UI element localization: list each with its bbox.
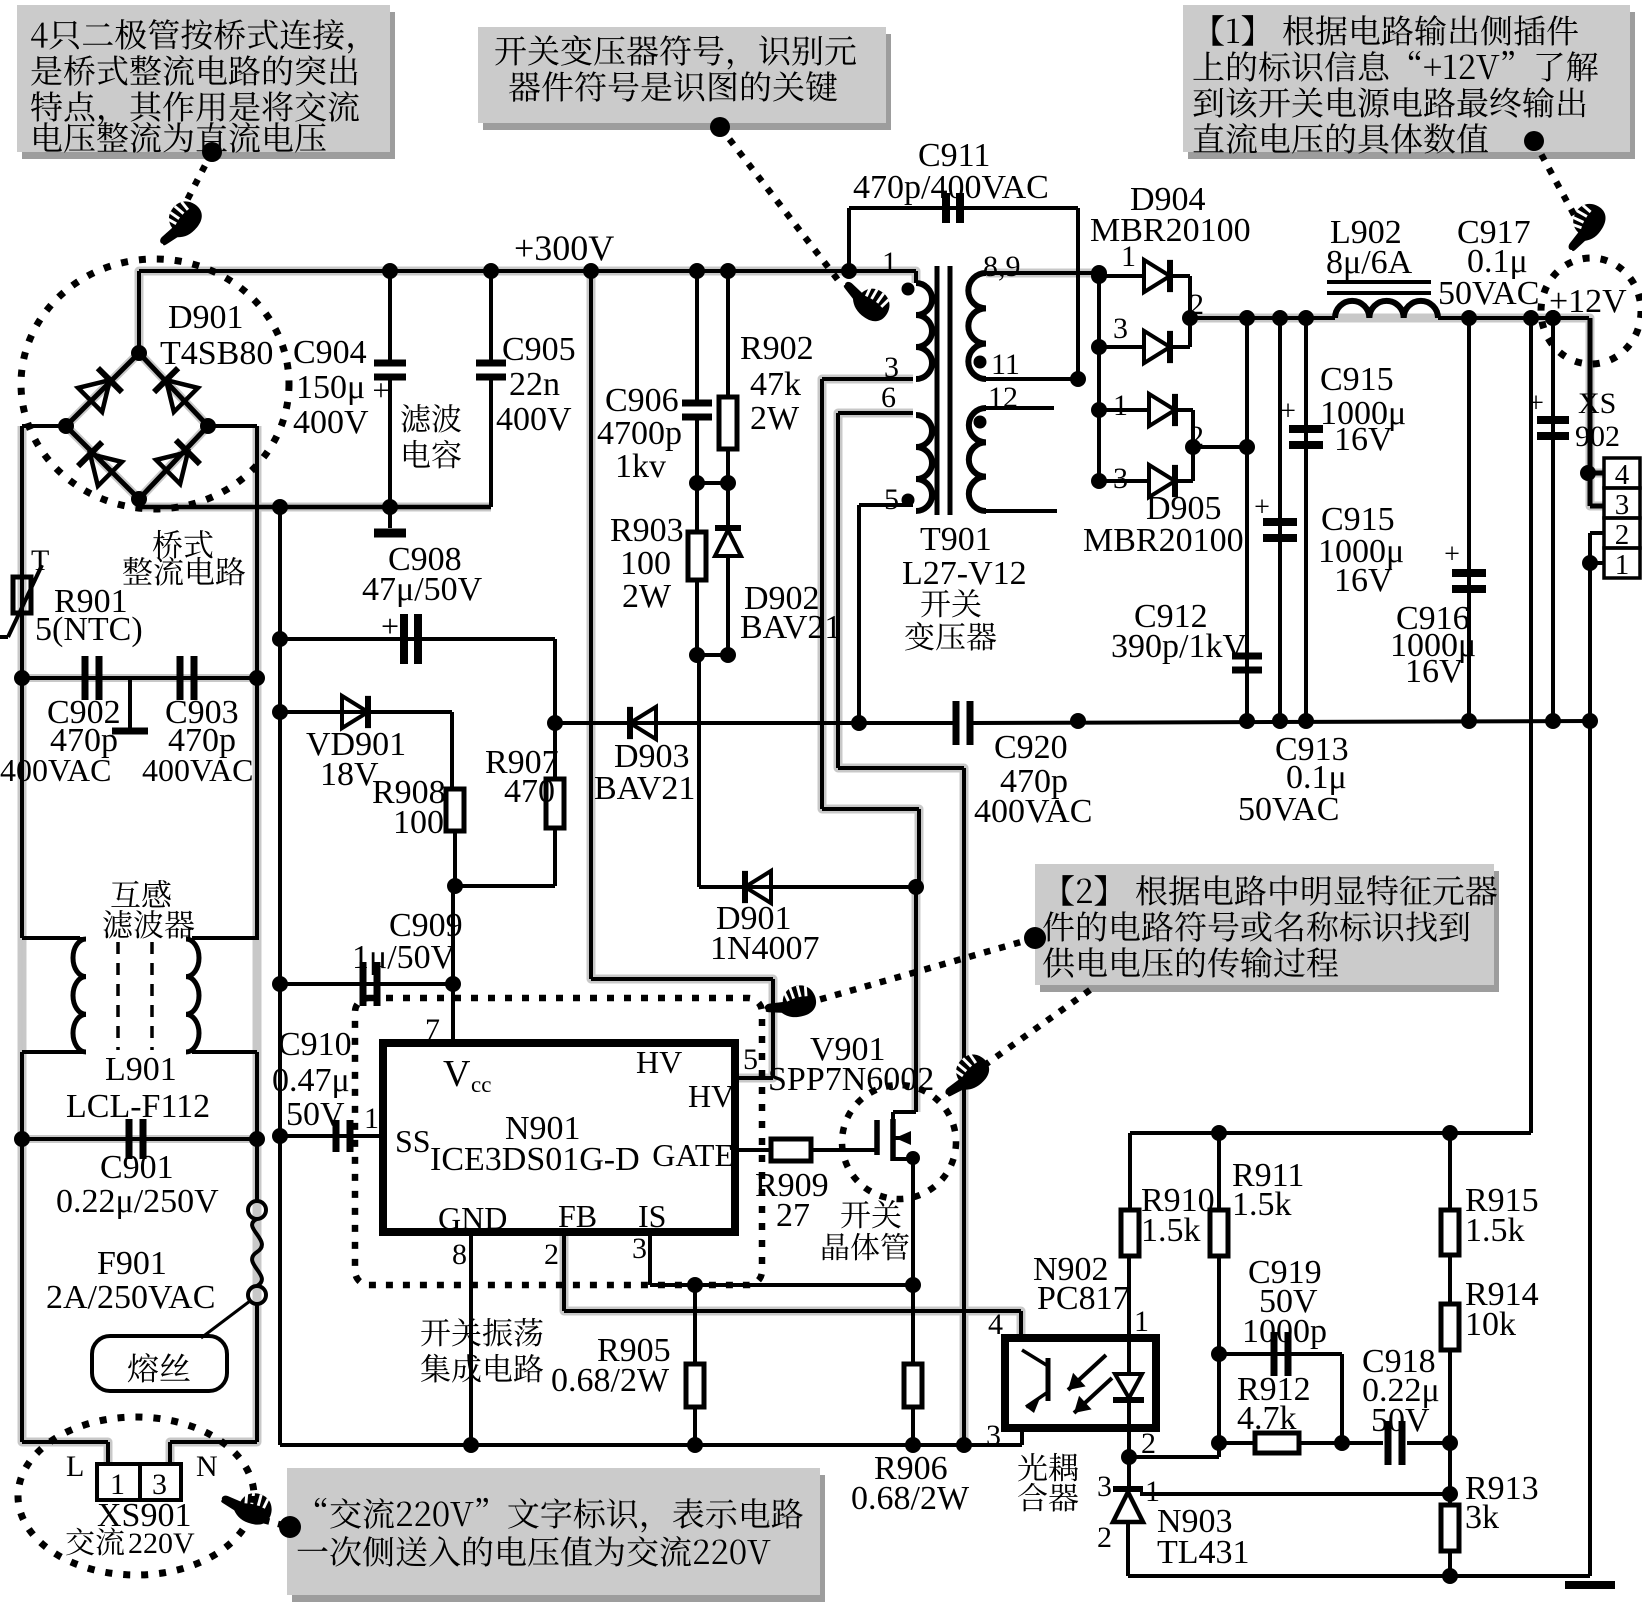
svg-text:SPP7N6002: SPP7N6002: [768, 1061, 934, 1098]
svg-text:IS: IS: [638, 1198, 666, 1234]
svg-text:50VAC: 50VAC: [1438, 275, 1539, 312]
svg-text:3: 3: [884, 351, 899, 384]
svg-text:1μ/50V: 1μ/50V: [352, 939, 456, 976]
svg-text:220V: 220V: [128, 1527, 195, 1560]
svg-text:3k: 3k: [1465, 1499, 1499, 1536]
svg-text:T901: T901: [920, 521, 992, 558]
svg-text:7: 7: [425, 1013, 440, 1046]
svg-text:16V: 16V: [1334, 562, 1393, 599]
svg-text:2: 2: [1141, 1427, 1156, 1460]
svg-text:902: 902: [1575, 420, 1620, 453]
svg-text:0.68/2W: 0.68/2W: [551, 1362, 670, 1399]
svg-text:50VAC: 50VAC: [1238, 791, 1339, 828]
svg-text:1kv: 1kv: [615, 448, 666, 485]
svg-text:47k: 47k: [750, 366, 801, 403]
svg-text:+: +: [373, 374, 390, 407]
svg-text:L: L: [66, 1450, 84, 1483]
svg-text:3: 3: [632, 1232, 647, 1265]
svg-text:4700p: 4700p: [597, 415, 682, 452]
svg-text:1: 1: [1121, 240, 1136, 273]
svg-text:5(NTC): 5(NTC): [35, 611, 143, 648]
svg-text:400VAC: 400VAC: [974, 793, 1092, 830]
svg-text:C905: C905: [502, 331, 576, 368]
svg-text:HV: HV: [688, 1078, 734, 1114]
svg-text:N: N: [196, 1450, 218, 1483]
svg-text:+: +: [381, 608, 399, 644]
svg-text:3: 3: [1097, 1470, 1112, 1503]
svg-text:3: 3: [986, 1419, 1001, 1452]
svg-text:GATE: GATE: [652, 1137, 734, 1173]
svg-text:1: 1: [1615, 549, 1630, 581]
svg-text:8: 8: [452, 1238, 467, 1271]
svg-text:F901: F901: [97, 1245, 167, 1282]
svg-text:0.47μ: 0.47μ: [272, 1062, 350, 1099]
svg-text:18V: 18V: [320, 756, 379, 793]
svg-text:R902: R902: [740, 330, 814, 367]
svg-text:150μ: 150μ: [296, 369, 365, 406]
svg-text:LCL-F112: LCL-F112: [66, 1088, 210, 1125]
svg-text:27: 27: [776, 1197, 810, 1234]
svg-text:4.7k: 4.7k: [1237, 1400, 1297, 1437]
svg-text:C915: C915: [1320, 361, 1394, 398]
svg-text:MBR20100: MBR20100: [1090, 212, 1251, 249]
svg-text:C904: C904: [293, 334, 367, 371]
svg-text:0.68/2W: 0.68/2W: [851, 1480, 970, 1517]
svg-text:470: 470: [504, 773, 555, 810]
svg-text:+12V: +12V: [1549, 283, 1627, 320]
svg-text:1: 1: [364, 1102, 379, 1135]
svg-text:470p/400VAC: 470p/400VAC: [853, 169, 1049, 206]
svg-text:1.5k: 1.5k: [1232, 1186, 1292, 1223]
svg-text:cc: cc: [471, 1072, 491, 1097]
svg-text:8μ/6A: 8μ/6A: [1326, 244, 1413, 281]
svg-text:2: 2: [1189, 420, 1204, 453]
svg-text:1N4007: 1N4007: [710, 930, 820, 967]
svg-text:2W: 2W: [622, 578, 672, 615]
svg-text:+: +: [1254, 492, 1270, 523]
svg-text:+: +: [1444, 539, 1460, 570]
svg-text:L27-V12: L27-V12: [902, 555, 1027, 592]
svg-text:100: 100: [620, 545, 671, 582]
svg-text:100: 100: [393, 804, 444, 841]
svg-text:4: 4: [988, 1308, 1003, 1341]
svg-text:1.5k: 1.5k: [1141, 1212, 1201, 1249]
svg-text:V: V: [443, 1053, 471, 1095]
svg-text:T: T: [31, 544, 49, 577]
svg-text:50V: 50V: [286, 1096, 345, 1133]
svg-text:MBR20100: MBR20100: [1083, 522, 1244, 559]
svg-text:3: 3: [1113, 312, 1128, 345]
svg-text:C906: C906: [605, 382, 679, 419]
svg-text:2: 2: [1189, 288, 1204, 321]
svg-text:PC817: PC817: [1037, 1280, 1130, 1317]
svg-text:400VAC: 400VAC: [142, 752, 253, 788]
svg-text:12: 12: [988, 381, 1018, 414]
svg-text:5: 5: [743, 1043, 758, 1076]
svg-text:T4SB80: T4SB80: [160, 335, 273, 372]
svg-text:SS: SS: [395, 1123, 431, 1159]
svg-text:TL431: TL431: [1157, 1534, 1250, 1571]
svg-text:400VAC: 400VAC: [0, 752, 111, 788]
svg-text:6: 6: [881, 381, 896, 414]
svg-text:16V: 16V: [1405, 653, 1464, 690]
svg-text:1: 1: [1145, 1475, 1160, 1508]
svg-text:1.5k: 1.5k: [1465, 1212, 1525, 1249]
svg-text:50V: 50V: [1371, 1402, 1430, 1439]
svg-text:C901: C901: [100, 1149, 174, 1186]
svg-text:3: 3: [1615, 489, 1630, 521]
svg-text:16V: 16V: [1334, 421, 1393, 458]
svg-text:R903: R903: [610, 512, 684, 549]
svg-text:ICE3DS01G-D: ICE3DS01G-D: [430, 1141, 640, 1178]
svg-text:FB: FB: [558, 1198, 597, 1234]
svg-text:2: 2: [544, 1238, 559, 1271]
svg-text:8,9: 8,9: [983, 250, 1021, 283]
svg-text:47μ/50V: 47μ/50V: [362, 571, 483, 608]
svg-text:C910: C910: [278, 1026, 352, 1063]
svg-text:HV: HV: [636, 1044, 682, 1080]
svg-text:10k: 10k: [1465, 1306, 1516, 1343]
svg-text:3: 3: [1113, 462, 1128, 495]
svg-text:BAV21: BAV21: [740, 609, 841, 646]
svg-text:+: +: [1280, 396, 1296, 427]
svg-text:+300V: +300V: [514, 228, 614, 268]
svg-text:1: 1: [882, 246, 897, 279]
svg-text:0.22μ/250V: 0.22μ/250V: [56, 1183, 219, 1220]
svg-text:1: 1: [1113, 389, 1128, 422]
svg-text:BAV21: BAV21: [594, 770, 695, 807]
svg-text:400V: 400V: [496, 401, 572, 438]
svg-text:2W: 2W: [750, 400, 800, 437]
svg-text:2: 2: [1615, 519, 1630, 551]
svg-text:2: 2: [1097, 1521, 1112, 1554]
svg-text:L901: L901: [105, 1051, 177, 1088]
svg-text:5: 5: [884, 483, 899, 516]
svg-text:1: 1: [1134, 1305, 1149, 1338]
svg-text:400V: 400V: [293, 404, 369, 441]
svg-text:GND: GND: [438, 1200, 507, 1236]
svg-text:390p/1kV: 390p/1kV: [1111, 628, 1247, 665]
svg-text:11: 11: [991, 348, 1020, 381]
svg-text:2A/250VAC: 2A/250VAC: [46, 1279, 215, 1316]
svg-text:C920: C920: [994, 729, 1068, 766]
svg-text:1000p: 1000p: [1242, 1313, 1327, 1350]
svg-text:4: 4: [1615, 459, 1630, 491]
svg-text:XS: XS: [1578, 387, 1616, 420]
svg-text:D901: D901: [168, 299, 244, 336]
svg-text:22n: 22n: [509, 366, 560, 403]
